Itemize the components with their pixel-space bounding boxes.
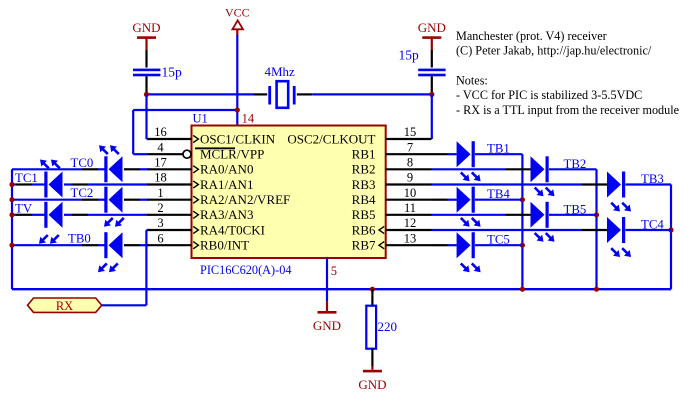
pin 4 inversion bubble [183,150,191,158]
svg-text:VCC: VCC [225,6,250,20]
pin 1 [148,199,192,201]
svg-text:U1: U1 [193,112,208,126]
LED TB5 [531,202,545,228]
svg-text:OSC1/CLKIN: OSC1/CLKIN [200,131,276,146]
pin 17 [148,168,192,170]
svg-text:GND: GND [358,377,386,392]
pin 8 [386,168,432,170]
pin 7 [386,153,448,155]
pin 16 [148,138,192,140]
ground GND (C2 top) [422,36,441,39]
svg-text:GND: GND [313,318,341,333]
svg-text:- VCC for PIC is stabilized 3-: - VCC for PIC is stabilized 3-5.5VDC [456,88,642,102]
junction V1/TB4 [520,197,525,202]
crystal X1 4Mhz [268,86,271,105]
LED TV [49,202,63,228]
svg-text:15: 15 [404,125,417,139]
junction bus/V2 [594,287,599,292]
wire row TB5 (RB5) [432,214,506,216]
wire row TC2 (RA2) [12,199,82,201]
svg-text:TC0: TC0 [71,156,94,170]
LED TC1 [49,172,63,198]
LED TC2 [109,187,123,213]
svg-text:OSC2/CLKOUT: OSC2/CLKOUT [287,131,375,146]
svg-text:RB2: RB2 [352,162,376,177]
pin 15 [386,138,432,140]
svg-text:RB3: RB3 [352,177,376,192]
svg-text:10: 10 [404,186,417,200]
svg-text:13: 13 [404,231,417,245]
pin 4 [148,153,192,155]
capacitor C1 15p [133,69,160,72]
junction V2/TB5 [594,212,599,217]
svg-text:17: 17 [154,156,167,170]
LED TB3 [607,172,621,198]
wire row TC5 (RB7) [432,244,448,246]
pin 11 [386,214,432,216]
LED TC5 [457,232,471,258]
svg-text:220: 220 [378,319,398,334]
svg-text:RA0/AN0: RA0/AN0 [200,162,253,177]
pin 5 [326,258,328,301]
svg-text:GND: GND [132,20,160,35]
ground GND (R1) [371,366,373,370]
LED TB1 [457,141,471,167]
pin 10 [386,199,432,201]
wire left rail [11,169,13,289]
svg-text:TB3: TB3 [641,172,664,186]
svg-text:(C) Peter Jakab, http://jap.hu: (C) Peter Jakab, http://jap.hu/electroni… [456,44,652,58]
wire node OSC2 horizontal [297,93,313,95]
pin 12 [386,229,432,231]
junction rail/TB0 [9,243,14,248]
svg-text:TC1: TC1 [15,171,38,185]
svg-text:RB7: RB7 [352,238,376,253]
svg-text:RB4: RB4 [352,192,376,207]
svg-text:RA1/AN1: RA1/AN1 [200,177,253,192]
wire column V2 [595,169,597,289]
wire OSC2 node down to pin 15 [431,94,433,139]
svg-text:TC5: TC5 [487,233,510,247]
svg-text:4Mhz: 4Mhz [265,64,296,79]
pin 18 [148,183,192,185]
svg-text:1: 1 [157,186,163,200]
wire row TB4 (RB4) [432,199,448,201]
ground GND (C1 top) [137,36,156,39]
svg-text:PIC16C620(A)-04: PIC16C620(A)-04 [200,263,292,277]
junction V3/TC4 [668,227,673,232]
wire bottom bus [12,288,671,290]
wire column V3 [670,185,672,290]
wire R1 to GND [371,349,373,366]
svg-text:TC4: TC4 [641,218,664,232]
wire C2 to node OSC2 [431,76,433,94]
svg-text:RB0/INT: RB0/INT [200,238,249,253]
svg-text:- RX is a TTL input from the r: - RX is a TTL input from the receiver mo… [456,103,679,117]
note text [456,29,679,117]
svg-text:RX: RX [56,299,73,313]
junction rail/TV [9,212,14,217]
pin 9 [386,183,432,185]
wire OSC1 node down to pin 16 [145,94,147,139]
pin 2 [148,214,192,216]
junction rail/TC2 [9,197,14,202]
svg-text:15p: 15p [399,48,420,63]
svg-text:15p: 15p [162,65,183,80]
svg-text:TV: TV [15,201,33,215]
wire MCLR to VCC [132,110,134,154]
svg-text:TB1: TB1 [487,142,510,156]
svg-text:16: 16 [154,125,167,139]
IC U1 PIC16C620(A)-04 [192,126,386,259]
junction C2/OSC2 [429,92,434,97]
svg-text:TB0: TB0 [68,232,91,246]
junction VCC/MCLR [235,107,240,112]
wire row TB1 (RB1) [448,153,457,155]
pin 3 [148,229,192,231]
junction C1/OSC1 [144,92,149,97]
wire row TC0 (RA0) [12,168,82,170]
svg-text:14: 14 [242,112,255,126]
svg-text:2: 2 [157,201,163,215]
svg-text:9: 9 [407,171,413,185]
svg-text:4: 4 [157,140,164,154]
svg-text:Manchester (prot. V4) receiver: Manchester (prot. V4) receiver [456,29,607,43]
resistor R1 220 [371,289,373,306]
LED TC0 [109,156,123,182]
wire row TC4 (RB6) [432,229,583,231]
svg-text:18: 18 [154,171,167,185]
svg-text:RB6: RB6 [352,222,376,237]
MCLR overline [195,147,235,149]
svg-text:TB5: TB5 [564,202,587,216]
svg-text:RA3/AN3: RA3/AN3 [200,207,253,222]
svg-text:GND: GND [418,20,446,35]
wire row TB3 (RB3) [432,183,583,185]
svg-text:11: 11 [404,201,416,215]
svg-text:3: 3 [157,216,163,230]
svg-text:TB2: TB2 [564,157,587,171]
svg-text:12: 12 [404,216,417,230]
junction rail/TC1 [9,182,14,187]
svg-text:RA4/T0CKI: RA4/T0CKI [200,222,265,237]
wire RX to pin 3 [102,304,147,306]
junction bus/V1 [520,287,525,292]
LED TC4 [607,217,621,243]
svg-text:7: 7 [407,140,413,154]
svg-text:8: 8 [407,156,413,170]
LED TB4 [457,187,471,213]
svg-text:RA2/AN2/VREF: RA2/AN2/VREF [200,192,290,207]
wire row TC1 (RA1) [12,183,16,185]
LED TB2 [531,156,545,182]
svg-text:RB5: RB5 [352,207,376,222]
wire C1 to node OSC1 [145,76,147,94]
capacitor C2 15p [418,69,445,72]
wire node OSC1 horizontal [147,93,254,95]
wire VCC to pin 14 [236,35,238,126]
svg-text:TB4: TB4 [487,187,510,201]
ground GND (pin 5) [326,301,328,311]
svg-text:RB1: RB1 [352,147,376,162]
junction bus/R1 [370,287,375,292]
svg-text:Notes:: Notes: [456,73,488,87]
wire row TB0 (RB0) [12,244,82,246]
wire row TV (RA3) [12,214,16,216]
pin 6 [148,244,192,246]
junction V1/TC5 [520,243,525,248]
wire GND to C2 [431,39,433,50]
svg-text:6: 6 [157,231,163,245]
wire GND to C1 [145,39,147,50]
wire row TB2 (RB2) [432,168,506,170]
pin 13 [386,244,432,246]
svg-text:TC2: TC2 [71,186,94,200]
wire column V1 [521,154,523,289]
svg-text:5: 5 [331,264,337,278]
port RX [28,298,102,312]
LED TB0 [109,232,123,258]
